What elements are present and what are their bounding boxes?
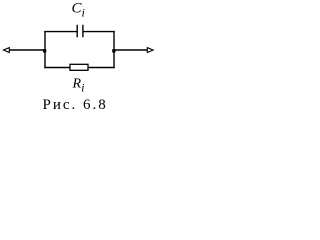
- wire: bottom branch left segment: [44, 67, 70, 69]
- wire: left vertical branch: [44, 31, 46, 68]
- wire: right vertical branch: [113, 31, 115, 68]
- terminal arrow left: [4, 48, 10, 53]
- resistor R_i body: [70, 64, 88, 70]
- junction node left: [43, 49, 46, 52]
- terminal arrow right: [147, 48, 153, 53]
- wire: bottom branch right segment: [88, 67, 115, 69]
- junction node right: [112, 49, 115, 52]
- svg-text:Рис. 6.8: Рис. 6.8: [43, 97, 108, 113]
- wire: left terminal lead: [9, 49, 45, 51]
- wire: top branch left segment: [44, 31, 76, 33]
- wire: top branch right segment: [84, 31, 115, 33]
- wire: right terminal lead: [114, 49, 147, 51]
- capacitor C_i plates: [76, 25, 78, 38]
